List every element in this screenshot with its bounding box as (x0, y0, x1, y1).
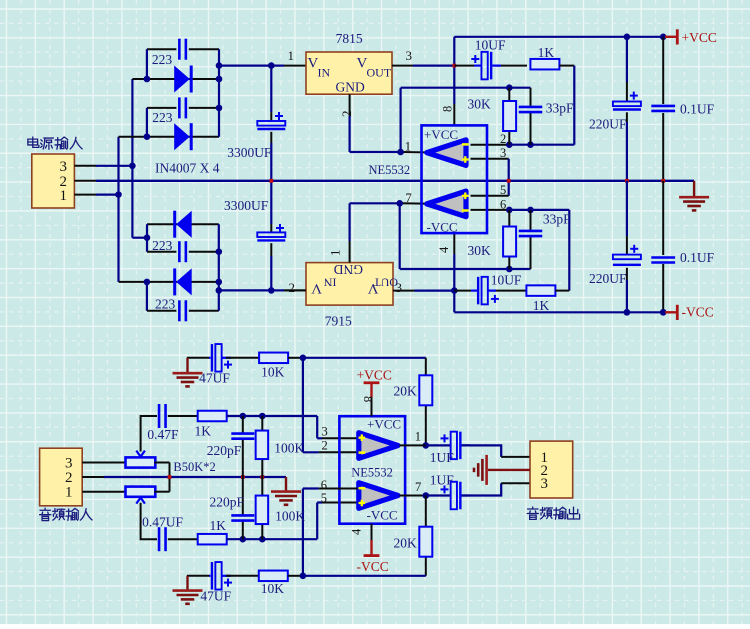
top +VCC rail (454, 36, 665, 38)
svg-text:4: 4 (437, 246, 451, 253)
junction (624, 34, 631, 41)
svg-text:3: 3 (322, 424, 328, 438)
svg-text:223: 223 (155, 297, 176, 312)
opamp U2 pin6 row (303, 487, 319, 489)
svg-text:220pF: 220pF (207, 443, 242, 458)
regulator 7915 output pin 3 wire (393, 290, 415, 292)
capacitor 3300UF #2 leads (270, 181, 272, 224)
connector J1 pin 1 stub (74, 194, 96, 196)
U1B minus mark (462, 209, 469, 212)
feedback column bottom (399, 203, 401, 269)
resistor 20K #1 (419, 375, 432, 405)
svg-text:2: 2 (289, 280, 296, 295)
U1B plus mark (462, 195, 469, 197)
opamp U1 pin1 row wire (350, 151, 401, 153)
junction (624, 309, 631, 316)
diode D4 (176, 268, 192, 295)
svg-text:47UF: 47UF (199, 371, 230, 386)
junction (660, 34, 667, 41)
connector J1 pin 3 stub (74, 165, 96, 167)
svg-text:+VCC: +VCC (357, 367, 392, 382)
junction (527, 207, 534, 214)
resistor 20K #2 (419, 527, 432, 557)
opamp U1 pin6 row (471, 209, 509, 211)
capacitor 33pF #2 leads (530, 210, 532, 230)
svg-text:3: 3 (500, 146, 506, 160)
op-amp U2B triangle (359, 483, 398, 509)
svg-text:220pF: 220pF (210, 495, 245, 510)
regulator 7915 GND pin 1 wire up (349, 241, 351, 263)
resistor 1K #2 (526, 285, 555, 296)
plus sign 1UF #1 (441, 437, 449, 439)
svg-text:1UF: 1UF (430, 472, 454, 487)
resistor 1K #2 right wire (555, 290, 569, 292)
plus sign 47UF #1 (224, 364, 232, 366)
svg-text:+VCC: +VCC (424, 127, 458, 142)
pot B50K #2 (126, 487, 156, 497)
capacitor 33pF #1 leads (530, 88, 532, 106)
svg-text:3: 3 (65, 455, 73, 471)
capacitor 10UF #1 (474, 64, 481, 66)
junction (144, 133, 151, 140)
junction (129, 163, 136, 170)
junction (506, 207, 513, 214)
opamp U1 pin7 row wire (350, 202, 400, 204)
capacitor 0.1UF #1 leads (662, 37, 664, 104)
svg-text:OUT: OUT (367, 66, 392, 80)
pot link vertical (169, 463, 171, 492)
svg-text:20K: 20K (394, 383, 418, 398)
connector J3 audio output box (530, 441, 573, 498)
junction (268, 62, 275, 69)
junction (300, 573, 307, 580)
capacitor 0.1UF #2 leads (662, 181, 664, 255)
capacitor 220pF #2 (231, 514, 254, 517)
junction (115, 191, 122, 198)
bridge loop1 cap row wire (147, 48, 177, 50)
connector J2 audio input box (40, 448, 83, 506)
capacitor 0.47F corner wire (141, 416, 157, 452)
junction (240, 536, 247, 543)
feedback row bottom (400, 268, 531, 270)
capacitor 220pF #2 column (242, 477, 244, 515)
svg-text:1: 1 (288, 48, 295, 63)
capacitor 10UF #2 wires (454, 290, 471, 292)
capacitor 0.1UF #1 (651, 105, 675, 108)
junction (144, 76, 151, 83)
resistor 1K #4 (198, 534, 227, 545)
junction (216, 76, 223, 83)
label audio output chinese (527, 507, 538, 519)
power port -VCC bottom right bar (665, 311, 677, 313)
wire 10K #2 right (288, 575, 303, 577)
svg-text:1: 1 (60, 188, 68, 204)
regulator 7915 input pin 2 wire (285, 289, 307, 291)
signal ground symbol middle (285, 477, 287, 491)
svg-text:30K: 30K (468, 97, 492, 112)
svg-text:1: 1 (415, 429, 421, 443)
svg-text:1UF: 1UF (430, 450, 454, 465)
svg-text:2: 2 (322, 439, 328, 453)
svg-text:220UF: 220UF (589, 271, 627, 286)
opamp U2 pin1 row (400, 444, 426, 446)
top input row (227, 415, 318, 417)
svg-text:30K: 30K (468, 243, 492, 258)
svg-text:1K: 1K (210, 518, 227, 533)
junction red on rail (507, 179, 511, 183)
svg-text:33pF: 33pF (543, 211, 571, 226)
connector J1 pin 2 stub (74, 180, 96, 182)
bridge loop3 diode row wire (147, 223, 219, 225)
svg-text:-VCC: -VCC (357, 559, 389, 574)
op-amp U2A triangle (359, 433, 398, 459)
bridge loop2 left vertical (146, 108, 148, 137)
capacitor 3300UF #1 leads (270, 66, 272, 113)
svg-text:33pF: 33pF (546, 100, 574, 115)
capacitor 0.47F (158, 404, 161, 428)
plus sign 10UF #1 (471, 58, 479, 60)
power port +VCC top right bar (665, 36, 677, 38)
svg-text:5: 5 (500, 183, 506, 197)
U2B plus mark (359, 502, 366, 504)
plus sign 10UF #2 (491, 298, 499, 300)
junction (144, 234, 151, 241)
ground at 47UF #2 (187, 575, 209, 577)
bottom rail to 20K #2 (303, 575, 426, 577)
wire 0.47F to 1K #3 (168, 415, 198, 417)
capacitor 220UF #1 leads (626, 37, 628, 82)
junction (216, 287, 223, 294)
resistor 100K #1 leads (261, 416, 263, 431)
junction (396, 200, 403, 207)
diode D1 row wire (132, 78, 219, 80)
svg-text:-VCC: -VCC (367, 508, 398, 523)
svg-text:3: 3 (396, 280, 403, 295)
svg-text:GND: GND (334, 262, 363, 277)
svg-text:8: 8 (441, 106, 455, 112)
pin8 +VCC column (453, 37, 455, 104)
capacitor 10UF #1 wires (454, 65, 474, 67)
svg-text:10K: 10K (261, 365, 285, 380)
capacitor 223 #3 row wire (147, 251, 176, 253)
resistor 30K #1 (503, 101, 516, 131)
capacitor 223 #3 (178, 241, 181, 262)
bridge loop3 left vertical (146, 224, 148, 252)
svg-text:3300UF: 3300UF (224, 198, 269, 213)
junction (259, 536, 266, 543)
positive node row to 7815 (219, 64, 284, 66)
junction red (625, 179, 629, 183)
junction (397, 149, 404, 156)
svg-text:-VCC: -VCC (427, 220, 458, 235)
bus wire left vertical 1 (117, 137, 119, 282)
connector J2 pin3 stub (82, 462, 126, 464)
svg-text:NE5532: NE5532 (351, 465, 393, 479)
junction (268, 287, 275, 294)
diode D1 (174, 66, 190, 93)
svg-text:NE5532: NE5532 (369, 163, 411, 177)
svg-text:7815: 7815 (336, 31, 363, 46)
capacitor 0.47UF corner wire (141, 503, 157, 539)
svg-text:10UF: 10UF (475, 37, 506, 52)
junction red (661, 179, 665, 183)
10K #2 column up to pin6 (302, 489, 304, 576)
junction (527, 141, 534, 148)
junction (300, 355, 307, 362)
plus sign 1UF #2 (441, 488, 449, 490)
svg-text:8: 8 (361, 396, 375, 402)
opamp U1 pin2 row (471, 144, 509, 146)
ground symbol right of mid rail (693, 181, 695, 197)
wire 1UF #1 to connector (462, 445, 501, 457)
junction red (168, 475, 172, 479)
svg-text:10UF: 10UF (491, 273, 522, 288)
svg-text:IN4007 X 4: IN4007 X 4 (155, 160, 220, 175)
capacitor 223 #4 (178, 300, 181, 321)
diode D2 row wire (119, 136, 220, 138)
svg-text:223: 223 (152, 238, 173, 253)
bridge loop4 diode row wire (119, 281, 219, 283)
pot B50K #1 (126, 457, 156, 467)
svg-text:47UF: 47UF (200, 589, 231, 604)
U2A plus mark (359, 437, 366, 439)
pot B50K #2 right lead (154, 491, 169, 493)
rail to 20K #1 (303, 357, 426, 359)
capacitor 220UF #2 (613, 255, 641, 260)
capacitor 0.47UF (158, 527, 161, 551)
bridge right bus bottom (218, 224, 220, 311)
svg-text:4: 4 (350, 528, 364, 535)
wire 1UF #2 to connector (462, 483, 501, 495)
opamp U2 pin7 row (400, 495, 426, 497)
resistor 1K #3 (198, 411, 227, 422)
capacitor 3300UF #1 (257, 121, 285, 126)
capacitor 220UF #2 leads (626, 181, 628, 236)
feedback column top (400, 88, 402, 152)
mid ground rail (96, 180, 694, 182)
svg-text:100K: 100K (274, 440, 304, 455)
op-amp U2 NE5532 body box (339, 416, 405, 524)
junction (216, 105, 223, 112)
junction (216, 248, 223, 255)
junction (624, 309, 631, 316)
svg-text:1: 1 (65, 484, 73, 500)
feedback row top (401, 87, 531, 89)
resistor 100K #1 (256, 431, 269, 460)
svg-text:1K: 1K (195, 424, 212, 439)
svg-text:7915: 7915 (325, 314, 352, 329)
junction (259, 413, 266, 420)
junction (240, 413, 247, 420)
pot wiper arrow 2 (136, 498, 145, 504)
junction (423, 492, 430, 499)
svg-text:2: 2 (500, 132, 506, 146)
svg-text:3: 3 (541, 476, 549, 492)
connector J2 pin2 stub (82, 476, 104, 478)
bridge loop2 cap row wire (147, 107, 177, 109)
wire 0.47UF to 1K #4 (168, 538, 198, 540)
capacitor 223 #2 (178, 97, 181, 118)
regulator 7815 body (306, 52, 392, 94)
10K column down to pin2 (302, 358, 304, 453)
svg-text:3: 3 (60, 159, 68, 175)
ground at 47UF #1 (187, 357, 209, 359)
svg-text:2: 2 (339, 111, 354, 118)
svg-text:0.47F: 0.47F (147, 427, 179, 442)
resistor 100K #2 (256, 496, 269, 525)
wire 10K right to junction (288, 357, 303, 359)
power port -VCC below U2 (364, 554, 380, 557)
svg-text:7: 7 (415, 480, 421, 494)
svg-text:+VCC: +VCC (367, 417, 401, 432)
svg-text:-VCC: -VCC (682, 305, 714, 320)
plus sign 220UF #1 (630, 95, 638, 97)
connector J2 pin1 stub (82, 491, 126, 493)
resistor 10K #2 (259, 571, 288, 582)
svg-text:0.1UF: 0.1UF (680, 102, 715, 117)
capacitor 1UF #1 (450, 444, 452, 446)
label audio input chinese (40, 508, 51, 520)
junction (660, 309, 667, 316)
U2A minus mark (359, 451, 366, 454)
svg-text:IN: IN (318, 66, 331, 80)
junction (506, 84, 513, 91)
junction (423, 442, 430, 449)
resistor 30K #2 leads (508, 210, 510, 227)
pot B50K #1 right lead (154, 462, 169, 464)
junction (660, 309, 667, 316)
regulator 7915 body (306, 263, 393, 306)
bridge loop1 left vertical (146, 49, 148, 79)
resistor 1K #1 right wire to pin2 row (559, 65, 574, 67)
negative node row to 7915 (219, 289, 284, 291)
svg-text:OUT: OUT (373, 276, 398, 290)
wire pin6 to 1K#2 (568, 210, 570, 291)
capacitor 220UF #1 (613, 102, 641, 107)
capacitor 33pF #1 (519, 106, 543, 109)
connector J1 power input box (32, 154, 75, 208)
junction (506, 141, 513, 148)
20K #1 column and leads (425, 358, 427, 377)
bus wire left vertical 2 (131, 79, 133, 238)
bridge loop4 left vertical (146, 282, 148, 311)
opamp U1 pin3 row and link to pin5 (471, 158, 509, 160)
svg-text:1: 1 (328, 250, 343, 257)
plus sign 220UF #2 (630, 248, 638, 250)
corner up to pin5 (316, 503, 318, 540)
junction (451, 287, 458, 294)
capacitor 47UF #1 (209, 357, 211, 359)
pot wiper arrow 1 (136, 451, 145, 457)
svg-text:20K: 20K (394, 536, 418, 551)
bottom -VCC rail (454, 311, 665, 313)
resistor 30K #2 (503, 227, 516, 257)
resistor 1K #1 (530, 59, 559, 69)
op-amp U1 NE5532 body box (422, 125, 488, 233)
svg-text:0.1UF: 0.1UF (680, 250, 715, 265)
diode D3 (176, 211, 192, 238)
capacitor 223 #4 row wire (147, 310, 177, 312)
svg-text:3: 3 (406, 48, 413, 63)
U1A plus mark (462, 158, 469, 160)
U2 pin8 stub (371, 397, 373, 416)
svg-text:3300UF: 3300UF (227, 145, 272, 160)
bus2 elbow into loop3 (132, 237, 147, 239)
resistor 10K #1 (259, 353, 288, 364)
capacitor 220pF #1 column (242, 416, 244, 433)
svg-text:6: 6 (500, 197, 506, 211)
junction red (241, 475, 245, 479)
svg-text:10K: 10K (261, 581, 285, 596)
capacitor 1UF #2 (450, 494, 452, 496)
signal ground row (104, 476, 286, 478)
plus sign 3300UF #1 (275, 115, 283, 117)
plus sign 47UF #2 (224, 582, 232, 584)
pin4 -VCC column (453, 233, 455, 254)
junction red (452, 64, 456, 68)
capacitor 3300UF #2 (257, 232, 285, 237)
svg-text:7: 7 (406, 191, 412, 205)
signal ground at J3 pin2 (488, 469, 530, 471)
svg-text:100K: 100K (275, 508, 305, 523)
bridge right bus top (218, 49, 220, 137)
U2B minus mark (359, 487, 366, 490)
svg-text:223: 223 (152, 52, 173, 67)
svg-text:220UF: 220UF (589, 116, 627, 131)
junction (216, 279, 223, 286)
U2 pin4 stub (371, 524, 373, 540)
svg-text:0.47UF: 0.47UF (142, 514, 183, 529)
plus sign 3300UF #2 (276, 227, 284, 229)
capacitor 47UF #2 (209, 575, 211, 577)
svg-text:V: V (311, 280, 322, 296)
capacitor 220pF #1 (231, 432, 254, 435)
wire 47UF to 10K (226, 357, 259, 359)
opamp U2 pin2 row (303, 451, 319, 453)
power port +VCC above U2 (364, 381, 380, 384)
svg-text:B50K*2: B50K*2 (173, 460, 215, 474)
bottom input row (227, 538, 318, 540)
svg-text:1K: 1K (538, 45, 555, 60)
capacitor 33pF #2 (519, 230, 543, 233)
junction red (260, 475, 264, 479)
wire 47UF #2 to 10K #2 (226, 575, 259, 577)
junction (506, 266, 513, 273)
svg-text:+VCC: +VCC (682, 30, 717, 45)
svg-text:6: 6 (321, 478, 327, 492)
regulator 7815 GND pin 2 wire down (349, 94, 351, 116)
op-amp U1A triangle (427, 140, 466, 166)
capacitor 223 #1 (178, 39, 181, 60)
svg-text:223: 223 (152, 110, 173, 125)
svg-text:1: 1 (405, 140, 411, 154)
opamp U2 pin5 row (317, 501, 322, 503)
svg-text:5: 5 (321, 491, 327, 505)
resistor 100K #2 leads (261, 477, 263, 497)
svg-text:GND: GND (336, 80, 365, 95)
junction (216, 62, 223, 69)
regulator 7815 output pin 3 wire (392, 65, 413, 67)
svg-text:1K: 1K (533, 298, 550, 313)
junction red on mid rail (269, 179, 273, 183)
20K #2 column and leads (425, 496, 427, 528)
capacitor 0.1UF #2 (651, 256, 675, 259)
capacitor 10UF #2 (471, 290, 478, 292)
U1A minus mark (462, 143, 469, 146)
resistor 30K #1 leads (508, 88, 510, 101)
junction (144, 279, 151, 286)
opamp U2 pin3 row (317, 437, 322, 439)
